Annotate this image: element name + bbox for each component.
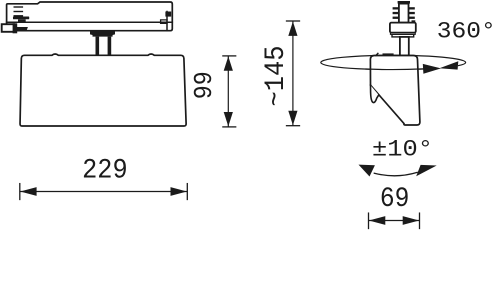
~145 dim arrow up <box>288 22 297 36</box>
rotation arrow back (points left) <box>439 61 458 69</box>
99 dim tick top <box>223 55 236 57</box>
69 dim arrow right <box>403 216 419 225</box>
~145 dim tick top <box>287 20 300 22</box>
360 rotation ellipse arc <box>321 55 466 69</box>
~145 dim arrow down <box>288 111 297 125</box>
right end tab <box>161 20 167 24</box>
adapter latch knob stem <box>18 19 26 22</box>
229 dim arrow left <box>20 187 36 196</box>
adapter vent slot 2 <box>14 11 24 12</box>
right end lever line <box>166 12 168 31</box>
69 dim tick right <box>419 213 421 228</box>
99 dim arrow down <box>224 112 233 126</box>
track adapter outline (front view) <box>7 2 173 31</box>
stem collar <box>390 23 416 33</box>
contact shoe <box>15 27 28 31</box>
stem left column (front) <box>96 37 100 56</box>
229 dim extension tick right <box>186 184 188 200</box>
svg-text:69: 69 <box>380 184 410 215</box>
right end lever block <box>165 12 171 17</box>
stem rib right 2 <box>409 12 415 14</box>
~145 dim line <box>292 21 294 125</box>
99 dim tick bottom <box>223 126 236 128</box>
229 dim extension tick left <box>19 184 21 200</box>
body hinge hook <box>371 85 379 102</box>
69 dim tick left <box>368 213 370 228</box>
stem rib left 3 <box>393 17 399 19</box>
luminaire body (side view) <box>370 56 420 126</box>
collar top-right nub <box>412 20 416 22</box>
side view stem top cap <box>398 1 410 4</box>
side view stem lower tube <box>400 37 409 56</box>
ellipse front arc over body <box>366 68 423 71</box>
left end box <box>2 24 15 32</box>
69 dim arrow left <box>369 216 385 225</box>
229 dim arrow right <box>171 187 187 196</box>
stem rib right 1 <box>409 7 415 9</box>
luminaire body (front view) <box>20 54 186 126</box>
svg-text:360°: 360° <box>437 18 496 45</box>
svg-text:99: 99 <box>189 71 219 99</box>
rotation arrow front (points right) <box>423 64 441 74</box>
svg-text:~145: ~145 <box>261 46 292 107</box>
tilt arrow right <box>416 165 437 176</box>
body top notch <box>376 53 378 55</box>
stem right column (front) <box>108 37 112 56</box>
adapter vent slot 1 <box>14 6 24 7</box>
stem rib right 3 <box>409 17 415 19</box>
adapter latch knob bar <box>13 17 29 20</box>
~145 dim tick bottom <box>287 125 300 127</box>
stem rib left 2 <box>393 12 399 14</box>
svg-text:229: 229 <box>82 155 128 186</box>
left end box dark post <box>13 23 18 33</box>
69 dim line <box>369 220 419 222</box>
body top tab <box>383 53 394 55</box>
svg-text:±10°: ±10° <box>372 137 433 164</box>
tilt arc <box>374 172 417 175</box>
229 dim line <box>21 191 187 193</box>
adapter vent slot 3 <box>14 15 24 16</box>
99 dim arrow up <box>224 56 233 70</box>
99 dim line <box>227 56 229 126</box>
collar lower plate 1 <box>391 33 416 35</box>
tilt arrow left <box>359 165 375 177</box>
stem rib left 1 <box>393 7 399 9</box>
side view stem upper tube <box>399 4 409 23</box>
track rail inner line <box>7 21 173 23</box>
stem flange (front) <box>90 31 115 37</box>
collar lower plate 2 <box>392 34 414 37</box>
